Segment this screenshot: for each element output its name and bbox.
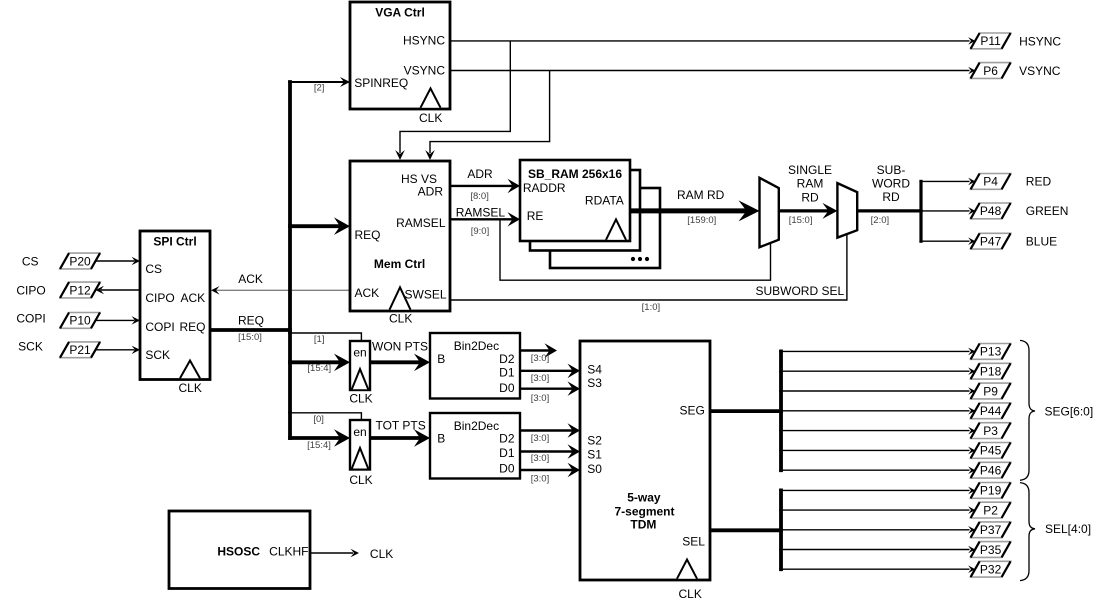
block Bin2Dec WON xyxy=(430,333,520,399)
svg-text:[2]: [2] xyxy=(314,83,325,94)
label ADR xyxy=(467,167,493,181)
svg-text:S1: S1 xyxy=(587,447,602,461)
wire SEL branch to pin P32 xyxy=(779,565,975,573)
svg-text:S4: S4 xyxy=(587,363,602,377)
label [15:0] mux xyxy=(789,215,813,226)
svg-text:5-way: 5-way xyxy=(627,491,661,505)
label WON PTS xyxy=(372,340,428,354)
label [0] xyxy=(313,414,324,425)
wire GREEN to pin P48 xyxy=(919,207,975,215)
block SPI Ctrl xyxy=(140,231,210,395)
block SB_RAM 256x16 stack xyxy=(520,160,660,268)
label SINGLE RAM RD xyxy=(788,163,832,205)
svg-text:[3:0]: [3:0] xyxy=(531,453,550,464)
svg-text:Bin2Dec: Bin2Dec xyxy=(454,339,499,353)
mux2 subword rd xyxy=(837,183,857,238)
svg-text:CLK: CLK xyxy=(179,381,202,395)
svg-text:7-segment: 7-segment xyxy=(614,505,674,519)
svg-text:RAM: RAM xyxy=(797,176,824,190)
pin P21 xyxy=(60,342,100,358)
svg-text:ADR: ADR xyxy=(467,167,493,181)
wire REQ vertical bus x=290 xyxy=(288,80,292,440)
label [15:4] lower xyxy=(307,440,331,451)
label [15:0] REQ bus xyxy=(238,332,262,343)
svg-text:SEL[4:0]: SEL[4:0] xyxy=(1045,522,1091,536)
svg-text:[3:0]: [3:0] xyxy=(531,433,550,444)
svg-text:SUB-: SUB- xyxy=(877,163,906,177)
wire REQ[0] branch to en2 enable xyxy=(288,413,361,421)
svg-text:ACK: ACK xyxy=(181,291,206,305)
wire HSYNC VGA to pin P11 xyxy=(450,37,975,45)
svg-text:[3:0]: [3:0] xyxy=(531,373,550,384)
svg-text:COPI: COPI xyxy=(16,312,45,326)
svg-text:P9: P9 xyxy=(983,384,998,398)
label TOT PTS xyxy=(375,419,425,433)
svg-text:en: en xyxy=(353,425,366,439)
label [3:0] d xyxy=(531,433,550,444)
pin P37 xyxy=(971,522,1011,538)
svg-text:SPINREQ: SPINREQ xyxy=(354,76,408,90)
wire BLUE to pin P47 xyxy=(919,237,975,245)
wire HSYNC branch down to Mem Ctrl xyxy=(395,41,510,160)
pin P35 xyxy=(971,542,1011,558)
wire RAMSEL branch to mux1 select xyxy=(500,219,771,280)
wire RAM RD [159:0] SB_RAM RDATA to mux1 xyxy=(630,200,760,221)
label SCK in xyxy=(18,340,43,354)
mux1 single ram rd xyxy=(760,178,779,247)
pin P10 xyxy=(60,313,100,329)
svg-text:HSOSC: HSOSC xyxy=(217,544,260,558)
svg-text:P2: P2 xyxy=(983,503,998,517)
svg-text:CLK: CLK xyxy=(370,547,393,561)
pin P13 xyxy=(971,344,1011,360)
svg-text:B: B xyxy=(437,432,445,446)
svg-text:CLK: CLK xyxy=(349,392,372,406)
label CS in xyxy=(22,255,39,269)
label GREEN xyxy=(1026,204,1069,218)
register en1 xyxy=(349,341,372,406)
svg-text:P13: P13 xyxy=(980,345,1002,359)
label [15:4] upper xyxy=(307,363,331,374)
pin P6 xyxy=(971,63,1011,79)
svg-text:[159:0]: [159:0] xyxy=(687,215,716,226)
svg-text:ACK: ACK xyxy=(238,272,263,286)
wire SEL TDM to fanout bus xyxy=(710,489,783,572)
wire REQ[1] branch to en1 enable xyxy=(288,333,361,342)
svg-text:[3:0]: [3:0] xyxy=(531,353,550,364)
wire Bin2Dec1 D0 to TDM S3 xyxy=(520,381,580,396)
svg-text:Mem Ctrl: Mem Ctrl xyxy=(374,257,425,271)
wire ADR Mem Ctrl to SB_RAM RADDR xyxy=(450,179,520,194)
wire RED to pin P4 xyxy=(919,178,975,186)
svg-text:COPI: COPI xyxy=(145,320,174,334)
wire REQ[15:4] branch to en2 data xyxy=(288,429,350,447)
svg-text:HSYNC: HSYNC xyxy=(403,34,445,48)
pin P4 xyxy=(971,174,1011,190)
wire SEG branch to pin P3 xyxy=(779,427,975,435)
label [8:0] xyxy=(470,191,489,202)
wire SEG branch to pin P13 xyxy=(779,348,975,356)
label RAMSEL wire xyxy=(456,206,506,220)
svg-text:TOT PTS: TOT PTS xyxy=(375,419,425,433)
svg-text:SWSEL: SWSEL xyxy=(404,288,446,302)
svg-text:P4: P4 xyxy=(983,175,998,189)
svg-text:SCK: SCK xyxy=(145,348,170,362)
svg-text:RD: RD xyxy=(882,190,900,204)
svg-text:[9:0]: [9:0] xyxy=(471,226,490,237)
svg-text:WORD: WORD xyxy=(872,176,910,190)
pin P20 xyxy=(60,253,100,269)
label CLK net xyxy=(370,547,393,561)
svg-text:P6: P6 xyxy=(983,64,998,78)
svg-text:P21: P21 xyxy=(69,343,91,357)
pin P45 xyxy=(971,443,1011,459)
pin P19 xyxy=(971,483,1011,499)
label [3:0] c xyxy=(531,393,550,404)
wire Bin2Dec1 D1 to TDM S4 xyxy=(520,364,580,379)
svg-text:SEL: SEL xyxy=(682,534,705,548)
svg-text:P37: P37 xyxy=(980,523,1002,537)
svg-text:SEG[6:0]: SEG[6:0] xyxy=(1045,404,1094,418)
svg-text:RED: RED xyxy=(1026,175,1052,189)
svg-text:CS: CS xyxy=(145,262,162,276)
svg-text:SCK: SCK xyxy=(18,340,43,354)
svg-text:D0: D0 xyxy=(499,462,515,476)
svg-text:REQ: REQ xyxy=(179,320,205,334)
svg-text:CLK: CLK xyxy=(679,587,702,601)
svg-text:S3: S3 xyxy=(587,376,602,390)
wire CIPO SPI Ctrl to pin P12 xyxy=(96,286,141,294)
label CIPO out xyxy=(16,283,45,297)
wire SEG branch to pin P45 xyxy=(779,447,975,455)
svg-text:ADR: ADR xyxy=(418,185,444,199)
wire WON PTS en1 to Bin2Dec B xyxy=(370,354,430,372)
wire SUB-WORD RD mux2 to rgb fanout bar xyxy=(857,180,922,243)
wire SEG branch to pin P9 xyxy=(779,387,975,395)
svg-text:VSYNC: VSYNC xyxy=(404,64,446,78)
pin P32 xyxy=(971,561,1011,577)
wire SINGLE RAM RD mux1 to mux2 xyxy=(779,203,838,219)
svg-text:ACK: ACK xyxy=(355,286,380,300)
svg-text:[1]: [1] xyxy=(314,334,325,345)
pin P44 xyxy=(971,403,1011,419)
wire Bin2Dec1 D2 dangling xyxy=(520,343,557,358)
svg-text:[0]: [0] xyxy=(313,414,324,425)
label [3:0] a xyxy=(531,353,550,364)
wire REQ[15:0] branch to Mem Ctrl REQ xyxy=(288,217,350,235)
svg-text:P45: P45 xyxy=(980,444,1002,458)
svg-text:P48: P48 xyxy=(980,204,1002,218)
wire VSYNC VGA to pin P6 xyxy=(450,67,975,75)
wire COPI pin P10 to SPI Ctrl xyxy=(96,316,140,325)
svg-text:P44: P44 xyxy=(980,404,1002,418)
svg-text:[15:4]: [15:4] xyxy=(307,363,331,374)
label COPI in xyxy=(16,312,45,326)
svg-text:[15:0]: [15:0] xyxy=(789,215,813,226)
wire SEL branch to pin P37 xyxy=(779,526,975,534)
svg-text:CS: CS xyxy=(22,255,39,269)
svg-text:RD: RD xyxy=(801,191,819,205)
svg-text:D2: D2 xyxy=(499,432,515,446)
svg-text:RAMSEL: RAMSEL xyxy=(396,216,446,230)
svg-text:RAM RD: RAM RD xyxy=(677,188,725,202)
svg-text:CLK: CLK xyxy=(419,111,442,125)
label ACK xyxy=(238,272,263,286)
block Bin2Dec TOT xyxy=(430,413,520,479)
wire Bin2Dec2 D1 to TDM S1 xyxy=(520,444,580,459)
label [9:0] xyxy=(471,226,490,237)
label [1] xyxy=(314,334,325,345)
pin P11 xyxy=(971,33,1011,49)
svg-text:BLUE: BLUE xyxy=(1026,235,1057,249)
block HSOSC xyxy=(169,511,310,589)
svg-text:SEG: SEG xyxy=(680,404,705,418)
pin P9 xyxy=(971,383,1011,399)
label [3:0] e xyxy=(531,453,550,464)
svg-text:GREEN: GREEN xyxy=(1026,204,1069,218)
pin P46 xyxy=(971,462,1011,478)
pin P2 xyxy=(971,502,1011,518)
brace SEG group xyxy=(1020,340,1035,480)
svg-text:P11: P11 xyxy=(980,34,1001,48)
wire CLK HSOSC output xyxy=(310,549,359,557)
svg-text:P3: P3 xyxy=(983,424,998,438)
label ellipsis more RAMs xyxy=(631,257,649,261)
label VSYNC out xyxy=(1019,64,1061,78)
wire SEG branch to pin P44 xyxy=(779,407,975,415)
svg-text:VGA Ctrl: VGA Ctrl xyxy=(375,6,425,20)
label SEG[6:0] xyxy=(1045,404,1094,418)
pin P12 xyxy=(60,282,100,298)
svg-text:D2: D2 xyxy=(499,352,515,366)
wire SEG TDM to fanout bus xyxy=(710,350,783,473)
label SUBWORD SEL xyxy=(755,284,844,298)
svg-text:RE: RE xyxy=(527,209,544,223)
label [159:0] xyxy=(687,215,716,226)
svg-text:TDM: TDM xyxy=(630,518,656,532)
svg-text:en: en xyxy=(353,346,366,360)
label [3:0] f xyxy=(531,474,550,485)
wire SEG branch to pin P46 xyxy=(779,466,975,474)
wire REQ[15:0] SPI Ctrl to vertical bus xyxy=(210,328,292,332)
pin P3 xyxy=(971,423,1011,439)
svg-text:S2: S2 xyxy=(587,433,602,447)
svg-text:D1: D1 xyxy=(499,446,515,460)
wire SEL branch to pin P35 xyxy=(779,546,975,554)
svg-text:P46: P46 xyxy=(980,464,1002,478)
register en2 xyxy=(349,420,372,487)
svg-text:P12: P12 xyxy=(69,283,91,297)
svg-text:SUBWORD SEL: SUBWORD SEL xyxy=(755,284,844,298)
wire VSYNC branch down to Mem Ctrl xyxy=(425,71,549,161)
svg-text:[2:0]: [2:0] xyxy=(871,215,890,226)
svg-text:Bin2Dec: Bin2Dec xyxy=(454,419,499,433)
svg-text:P20: P20 xyxy=(69,254,91,268)
svg-text:REQ: REQ xyxy=(238,314,264,328)
pin P18 xyxy=(971,363,1011,379)
wire SCK pin P21 to SPI Ctrl xyxy=(96,346,140,355)
svg-text:[3:0]: [3:0] xyxy=(531,474,550,485)
label SEL[4:0] xyxy=(1045,522,1091,536)
block Mem Ctrl xyxy=(350,161,450,326)
svg-text:S0: S0 xyxy=(587,462,602,476)
svg-text:SINGLE: SINGLE xyxy=(788,163,832,177)
svg-text:CIPO: CIPO xyxy=(145,291,174,305)
svg-text:[1:0]: [1:0] xyxy=(642,302,661,313)
svg-text:P19: P19 xyxy=(980,484,1002,498)
svg-text:WON PTS: WON PTS xyxy=(372,340,428,354)
svg-text:CLK: CLK xyxy=(349,473,372,487)
wire RAMSEL Mem Ctrl to SB_RAM RE xyxy=(450,212,520,227)
label SUB-WORD RD xyxy=(872,163,910,204)
label BLUE xyxy=(1026,235,1057,249)
wire Bin2Dec2 D0 to TDM S0 xyxy=(520,463,580,477)
svg-text:[15:4]: [15:4] xyxy=(307,440,331,451)
wire ACK Mem Ctrl to SPI Ctrl (gray) xyxy=(211,286,350,295)
wire REQ[2] branch to VGA SPINREQ xyxy=(288,77,350,87)
svg-text:CLK: CLK xyxy=(389,312,412,326)
label [2] xyxy=(314,83,325,94)
svg-text:RAMSEL: RAMSEL xyxy=(456,206,506,220)
svg-text:SB_RAM 256x16: SB_RAM 256x16 xyxy=(528,167,622,181)
pin P47 xyxy=(971,233,1011,249)
brace SEL group xyxy=(1020,483,1035,581)
label [1:0] xyxy=(642,302,661,313)
block 5-way 7-segment TDM xyxy=(580,341,710,601)
wire Bin2Dec2 D2 to TDM S2 xyxy=(520,423,580,438)
svg-text:[3:0]: [3:0] xyxy=(531,393,550,404)
svg-text:P18: P18 xyxy=(980,365,1002,379)
wire CS pin P20 to SPI Ctrl xyxy=(96,257,140,265)
svg-text:B: B xyxy=(437,352,445,366)
svg-text:RADDR: RADDR xyxy=(523,181,566,195)
svg-text:SPI Ctrl: SPI Ctrl xyxy=(153,235,196,249)
svg-text:RDATA: RDATA xyxy=(585,193,624,207)
wire TOT PTS en2 to Bin2Dec B xyxy=(370,429,430,447)
svg-text:CIPO: CIPO xyxy=(16,283,45,297)
svg-text:HSYNC: HSYNC xyxy=(1019,35,1061,49)
svg-text:REQ: REQ xyxy=(355,228,381,242)
label RED xyxy=(1026,175,1052,189)
label [2:0] xyxy=(871,215,890,226)
svg-text:D1: D1 xyxy=(499,366,515,380)
wire REQ[15:4] branch to en1 data xyxy=(288,354,350,372)
svg-text:P35: P35 xyxy=(980,543,1002,557)
svg-text:P10: P10 xyxy=(69,314,91,328)
svg-text:P32: P32 xyxy=(980,563,1002,577)
label REQ xyxy=(238,314,264,328)
wire SEL branch to pin P19 xyxy=(779,487,975,495)
pin P48 xyxy=(971,203,1011,219)
label [3:0] b xyxy=(531,373,550,384)
svg-text:CLKHF: CLKHF xyxy=(269,544,308,558)
wire SWSEL Mem Ctrl to mux2 select xyxy=(450,234,847,300)
svg-text:[8:0]: [8:0] xyxy=(470,191,489,202)
svg-text:VSYNC: VSYNC xyxy=(1019,64,1061,78)
block VGA Ctrl xyxy=(350,2,450,125)
label HSYNC out xyxy=(1019,35,1061,49)
svg-text:D0: D0 xyxy=(499,381,515,395)
svg-text:P47: P47 xyxy=(980,235,1002,249)
label RAM RD xyxy=(677,188,725,202)
svg-text:[15:0]: [15:0] xyxy=(238,332,262,343)
wire SEL branch to pin P2 xyxy=(779,506,975,514)
wire SEG branch to pin P18 xyxy=(779,367,975,375)
